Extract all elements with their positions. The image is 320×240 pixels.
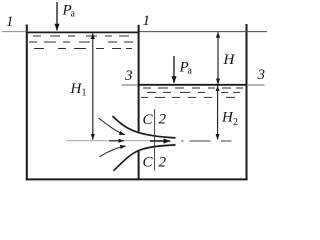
tank left wall	[26, 25, 28, 181]
svg-text:3: 3	[257, 67, 266, 83]
water surface left tank (level 1)	[26, 31, 140, 33]
water dashes right tank row 2	[147, 91, 240, 93]
water dashes right tank row 3	[141, 96, 235, 98]
axis centerline dash-dot (right part)	[182, 140, 232, 142]
jet upper boundary streamline	[113, 116, 176, 138]
head arrow H2	[217, 86, 219, 140]
water dashes left tank row 3	[34, 48, 132, 50]
head arrow H1	[92, 33, 94, 139]
svg-text:C: C	[143, 155, 154, 171]
head arrow H	[217, 32, 219, 84]
water dashes left tank row 1	[33, 35, 129, 37]
tank right wall	[246, 24, 248, 180]
level line 1-1 left extension	[2, 31, 27, 33]
svg-text:2: 2	[159, 155, 167, 171]
svg-text:2: 2	[233, 117, 238, 128]
axis flow arrow into orifice	[109, 140, 124, 142]
svg-text:1: 1	[82, 88, 87, 99]
svg-text:2: 2	[159, 112, 167, 128]
svg-text:H: H	[223, 52, 236, 68]
svg-text:1: 1	[6, 14, 14, 30]
svg-text:C: C	[143, 112, 154, 128]
orifice axis centerline (left part)	[66, 140, 152, 142]
partition wall upper segment	[138, 25, 140, 132]
svg-text:1: 1	[143, 13, 151, 29]
atmospheric pressure arrow Pa (left tank)	[56, 2, 58, 31]
tank bottom	[26, 178, 248, 180]
jet flow arrow after orifice	[150, 140, 170, 142]
level line 3-3 right extension	[247, 84, 265, 86]
inflow streamline upper with arrow	[99, 118, 125, 135]
level line 3-3 left extension	[122, 84, 139, 86]
level line 1-1 right extension	[140, 31, 268, 33]
water surface right tank (level 3)	[138, 84, 247, 86]
inflow streamline lower with arrow	[100, 146, 126, 157]
water dashes left tank row 2	[29, 41, 133, 43]
svg-text:3: 3	[124, 68, 133, 84]
atmospheric pressure arrow Pa (right tank)	[173, 56, 175, 83]
svg-text:a: a	[71, 9, 76, 20]
partition wall lower segment	[138, 151, 140, 180]
water dashes right tank row 1	[143, 87, 243, 89]
section line 2-2 (vena contracta)	[154, 109, 156, 171]
svg-text:a: a	[188, 66, 193, 77]
jet lower boundary streamline	[114, 145, 176, 171]
